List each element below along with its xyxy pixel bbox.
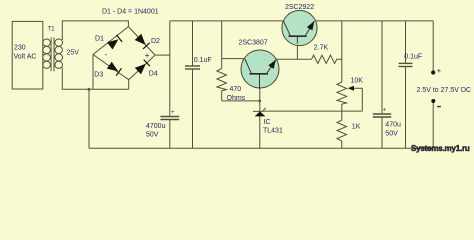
diode D3 [107, 62, 122, 76]
svg-text:D3: D3 [94, 71, 103, 78]
wire 470 bottom to TL431 cathode [222, 100, 260, 102]
svg-text:470u: 470u [385, 122, 401, 129]
svg-text:D1: D1 [95, 35, 104, 42]
transistor Q1 2SC3807 [241, 50, 279, 89]
wire minus node down to ground rail [88, 89, 90, 148]
svg-text:50V: 50V [385, 130, 398, 137]
wire Q2 base lead [296, 44, 298, 60]
secondary top lead [62, 21, 128, 40]
svg-text:2SC2922: 2SC2922 [285, 4, 314, 11]
ground bottom rail [89, 147, 433, 149]
bridge diamond edge T-R [128, 27, 155, 55]
capacitor C3 470u line [381, 21, 383, 114]
junction node minus [88, 88, 91, 91]
wire Q1 emitter to Q2 base node [276, 58, 312, 60]
svg-text:Ohms: Ohms [227, 95, 246, 102]
wire collector branch to Q1 [222, 58, 245, 60]
wire output plus drop [432, 21, 434, 71]
svg-text:25V: 25V [67, 50, 80, 57]
svg-text:D4: D4 [149, 71, 158, 78]
svg-text:2SC3807: 2SC3807 [239, 40, 268, 47]
svg-text:2.5V to 27.5V DC: 2.5V to 27.5V DC [417, 87, 471, 94]
svg-text:TL431: TL431 [263, 127, 283, 134]
resistor R3 1K zigzag [337, 111, 347, 148]
svg-text:2.7K: 2.7K [314, 45, 329, 52]
plus rail vertical with 4700u cap gap [169, 21, 171, 116]
svg-text:1K: 1K [352, 123, 361, 130]
svg-text:+: + [145, 51, 150, 60]
bridge diamond edge B-R [129, 55, 155, 80]
transformer T1 primary coil [43, 39, 51, 46]
svg-text:Systems.my1.ru: Systems.my1.ru [411, 144, 470, 153]
diode D2 [135, 34, 150, 49]
wire bridge right corner to plus rail [155, 54, 170, 56]
label output minus [437, 106, 441, 108]
svg-text:0.1uF: 0.1uF [404, 53, 422, 60]
wire bridge bottom corner drop [128, 80, 130, 90]
resistor R1 470 Ohms zigzag [217, 69, 227, 101]
svg-text:50V: 50V [146, 132, 159, 139]
top rail [170, 20, 433, 22]
pot wiper arrow [348, 86, 354, 91]
svg-text:Volt AC: Volt AC [14, 54, 37, 61]
svg-text:230: 230 [14, 44, 26, 51]
wire output minus drop [432, 103, 434, 148]
wire TL431 cathode to pot node [263, 110, 363, 112]
svg-text:-: - [105, 50, 108, 59]
svg-text:T1: T1 [48, 26, 56, 32]
svg-text:D1 - D4 = 1N4001: D1 - D4 = 1N4001 [102, 8, 159, 15]
diode D4 [135, 60, 150, 75]
capacitor C1 4700u plates [160, 116, 179, 118]
transistor Q2 2SC2922 [282, 10, 317, 45]
pot wiper loop [353, 88, 363, 111]
capacitor C4 0.1uF line [405, 21, 407, 63]
output terminal plus dot [431, 70, 435, 74]
output terminal minus dot [431, 99, 435, 103]
svg-text:IC: IC [264, 119, 271, 126]
capacitor C4 0.1uF plates [399, 62, 413, 64]
svg-text:+: + [383, 108, 387, 114]
potentiometer VR1 10K zigzag [337, 82, 347, 111]
svg-text:+: + [437, 66, 442, 75]
bridge diamond edge B-L [93, 55, 129, 80]
IC U1 TL431 vertical lead [259, 74, 261, 148]
wire bridge left corner drop [92, 55, 94, 90]
svg-text:D2: D2 [151, 38, 160, 45]
capacitor C2 0.1uF plates [185, 65, 200, 67]
junction node TL431 [259, 100, 262, 103]
svg-text:0.1uF: 0.1uF [194, 57, 212, 64]
svg-text:+: + [171, 110, 175, 116]
AC source box [12, 21, 43, 89]
diode D1 [107, 35, 122, 50]
capacitor C2 0.1uF line [192, 21, 194, 66]
IC U1 TL431 triangle [255, 111, 266, 116]
transformer core [50, 37, 52, 71]
secondary bottom lead [62, 68, 128, 90]
transformer secondary coil [55, 39, 63, 46]
svg-text:4700u: 4700u [146, 123, 166, 130]
vertical rail to 10K pot [341, 21, 343, 82]
TL431 cathode bar [253, 108, 266, 112]
capacitor C3 470u plates [373, 113, 391, 115]
svg-text:470: 470 [230, 86, 242, 93]
resistor 470 ohm branch from rail [221, 21, 223, 69]
bridge diamond edge L-T [93, 27, 128, 55]
resistor R2 2.7K zigzag [312, 55, 343, 63]
svg-text:10K: 10K [351, 77, 364, 84]
